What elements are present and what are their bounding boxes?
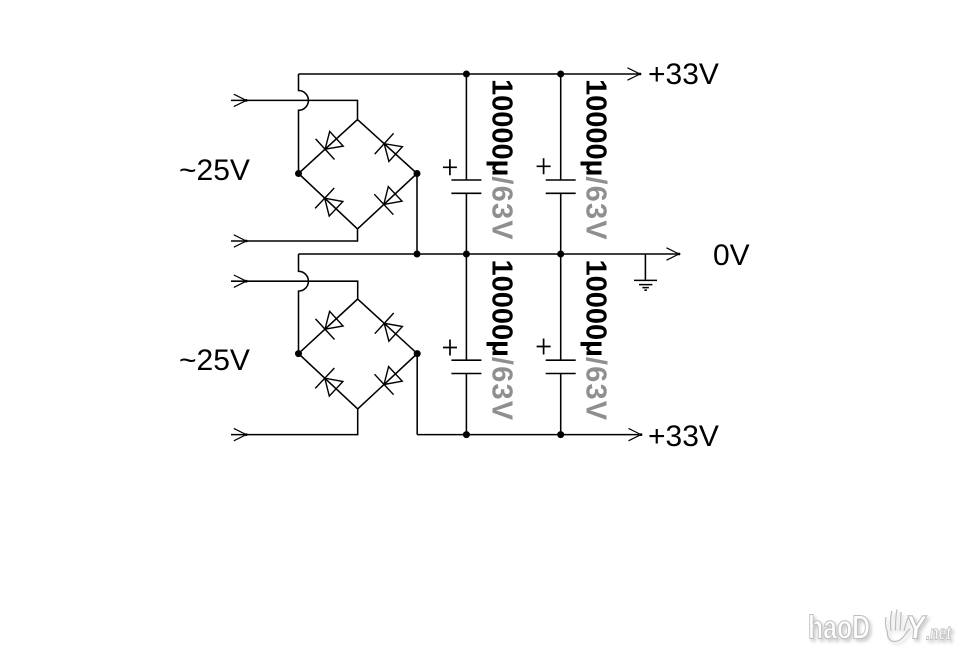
svg-text:haoD: haoD — [808, 609, 870, 646]
svg-text:0V: 0V — [713, 239, 750, 272]
svg-text:.net: .net — [925, 622, 953, 644]
svg-text:~25V: ~25V — [179, 154, 250, 187]
svg-text:+33V: +33V — [648, 58, 719, 91]
svg-text:+33V: +33V — [648, 420, 719, 453]
svg-text:10000µ/63V: 10000µ/63V — [485, 260, 517, 422]
svg-text:10000µ/63V: 10000µ/63V — [485, 79, 517, 241]
svg-text:~25V: ~25V — [179, 344, 250, 377]
svg-text:10000µ/63V: 10000µ/63V — [580, 79, 612, 241]
svg-text:10000µ/63V: 10000µ/63V — [580, 260, 612, 422]
